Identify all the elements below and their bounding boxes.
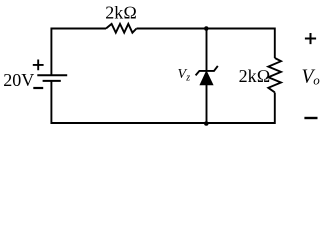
svg-text:2kΩ: 2kΩ	[105, 2, 137, 22]
battery V1 top plate (long, + terminal)	[37, 74, 67, 76]
battery minus sign	[33, 87, 43, 89]
battery plus sign	[33, 60, 44, 71]
junction dot (bottom node)	[204, 121, 209, 126]
label: plus sign of output voltage	[305, 33, 316, 44]
resistor R1 (2k ohm, series, horizontal zigzag)	[106, 24, 137, 33]
battery V1 bottom plate (short, - terminal)	[43, 80, 61, 82]
wire: R2 bottom to bottom-right corner, across bottom, up to battery - terminal	[51, 81, 274, 123]
svg-text:2kΩ: 2kΩ	[239, 66, 271, 86]
svg-text:o: o	[313, 73, 320, 88]
zener diode D1 cathode bar with bent ends	[196, 66, 218, 76]
wire: battery + terminal up to top-left corner, across to R1	[51, 29, 106, 76]
wire: R1 to top-right corner, down to R2 top	[137, 29, 275, 59]
zener diode D1 anode triangle (filled, pointing up)	[200, 71, 213, 85]
wire: zener anode down to bottom junction	[206, 84, 208, 123]
wire: top junction down to zener cathode	[206, 29, 208, 71]
svg-text:20V: 20V	[3, 70, 34, 90]
resistor R2 (2k ohm, load, vertical zigzag)	[268, 58, 281, 92]
svg-text:z: z	[185, 73, 190, 84]
label: minus sign of output voltage	[304, 117, 317, 119]
junction dot (top node)	[204, 26, 209, 31]
